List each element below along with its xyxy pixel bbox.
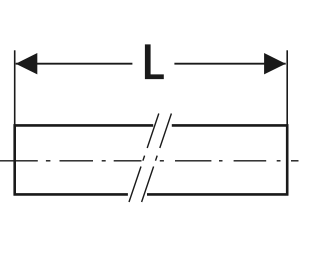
dimension line left segment [16,63,133,65]
break line 1 middle piece [143,156,145,161]
break line 2 lower piece [142,167,154,203]
break line 2 upper piece [160,114,172,149]
break line 1 lower piece [129,167,141,203]
arrowhead left [16,53,38,74]
rod left edge [13,124,16,195]
label L [145,44,164,79]
arrowhead right [264,53,286,74]
rod top edge left part [14,124,154,127]
rod right edge [286,124,289,195]
rod top edge right part [172,124,289,127]
rod bottom edge left part [14,193,128,196]
dimension line right segment [174,63,285,65]
rod bottom edge right part [147,193,288,196]
break line 2 middle piece [156,156,158,161]
extension line left [14,50,16,125]
extension line right [286,50,288,125]
centerline dash-dot [0,160,299,162]
break line 1 upper piece [147,114,159,149]
